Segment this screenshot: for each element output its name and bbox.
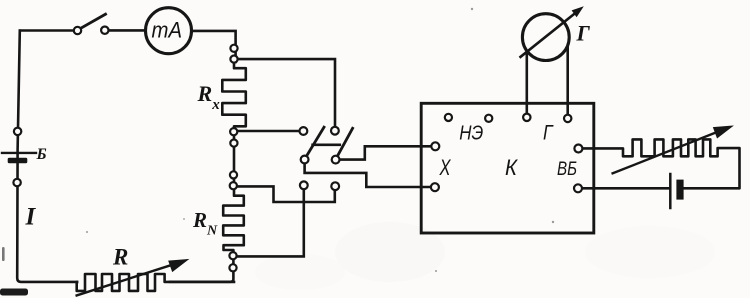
svg-text:Б: Б bbox=[36, 146, 47, 163]
svg-text:ВБ: ВБ bbox=[557, 158, 577, 180]
svg-text:Rx: Rx bbox=[197, 81, 221, 113]
svg-text:Г: Г bbox=[576, 21, 591, 46]
svg-text:К: К bbox=[505, 155, 518, 180]
svg-text:Г: Г bbox=[543, 122, 554, 145]
svg-text:НЭ: НЭ bbox=[459, 123, 483, 145]
svg-text:RN: RN bbox=[192, 208, 218, 239]
svg-text:I: I bbox=[25, 204, 37, 231]
svg-text:X: X bbox=[439, 155, 452, 180]
svg-text:mA: mA bbox=[152, 17, 183, 42]
svg-text:R: R bbox=[112, 245, 128, 270]
